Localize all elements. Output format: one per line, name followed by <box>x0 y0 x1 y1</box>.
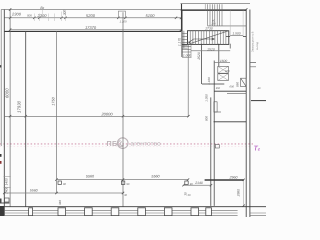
svg-text:300: 300 <box>62 10 66 16</box>
svg-text:1.500: 1.500 <box>232 32 240 36</box>
svg-text:300: 300 <box>216 87 221 90</box>
svg-text:5560: 5560 <box>30 188 38 192</box>
svg-text:ПБ: ПБ <box>107 139 118 148</box>
svg-text:20000: 20000 <box>100 111 113 116</box>
svg-text:17370: 17370 <box>85 25 97 30</box>
svg-text:2730: 2730 <box>204 27 213 31</box>
svg-text:90: 90 <box>126 183 129 186</box>
svg-text:2960: 2960 <box>229 175 238 179</box>
svg-text:500: 500 <box>27 13 32 17</box>
svg-text:5200: 5200 <box>86 13 96 18</box>
svg-text:30: 30 <box>183 192 187 196</box>
svg-text:340: 340 <box>58 200 62 205</box>
svg-text:Тг: Тг <box>254 146 261 153</box>
svg-text:2980: 2980 <box>236 189 240 198</box>
svg-text:90: 90 <box>190 183 193 186</box>
svg-text:890: 890 <box>236 82 240 87</box>
svg-text:2300: 2300 <box>37 13 48 18</box>
svg-text:17930: 17930 <box>16 100 21 113</box>
svg-text:1.100: 1.100 <box>120 19 127 23</box>
svg-text:90: 90 <box>63 183 66 186</box>
svg-text:2140: 2140 <box>194 181 203 185</box>
svg-text:5560: 5560 <box>151 175 160 179</box>
svg-text:1.050: 1.050 <box>205 94 209 102</box>
svg-text:600: 600 <box>230 86 235 89</box>
svg-text:2520: 2520 <box>197 52 201 61</box>
svg-text:1600: 1600 <box>220 59 228 63</box>
svg-text:выход: выход <box>255 42 259 50</box>
svg-text:1400: 1400 <box>5 178 9 185</box>
svg-text:800: 800 <box>205 116 209 121</box>
svg-text:30: 30 <box>188 194 191 197</box>
svg-text:6000: 6000 <box>4 88 9 98</box>
svg-text:30: 30 <box>124 194 127 197</box>
svg-text:2300: 2300 <box>11 11 22 16</box>
svg-text:5560: 5560 <box>86 175 95 179</box>
svg-text:5100: 5100 <box>146 13 156 18</box>
svg-text:230: 230 <box>210 22 216 25</box>
svg-text:Вх: Вх <box>40 6 44 10</box>
svg-text:1.170: 1.170 <box>177 38 181 46</box>
svg-text:600: 600 <box>225 70 230 73</box>
svg-text:1750: 1750 <box>51 96 55 105</box>
svg-text:1.100: 1.100 <box>207 77 211 85</box>
svg-text:агентство: агентство <box>131 141 162 148</box>
